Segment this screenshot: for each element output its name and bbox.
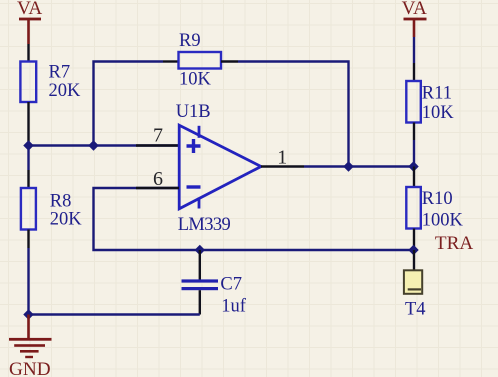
R9 left pin stub	[163, 60, 179, 62]
svg-text:C7: C7	[220, 274, 242, 294]
svg-text:20K: 20K	[49, 81, 82, 101]
op-amp U1B triangle	[179, 125, 261, 209]
svg-text:T4: T4	[405, 299, 426, 319]
wire T4 pin	[413, 250, 415, 270]
junction TRA node	[408, 245, 418, 255]
wire VA-right to R11	[413, 37, 415, 63]
power symbol VA (left)	[19, 18, 41, 44]
svg-text:TRA: TRA	[435, 233, 474, 254]
svg-text:U1B: U1B	[176, 102, 211, 122]
svg-text:100K: 100K	[422, 210, 464, 230]
op-amp plus input mark	[187, 139, 201, 153]
wire C7 pin2 down	[199, 290, 201, 314]
op-amp minus input mark	[187, 185, 201, 188]
wire R10 pin2 to TRA node	[413, 229, 415, 251]
wire C7 pin1	[199, 250, 201, 280]
junction output/feedback	[343, 161, 353, 171]
junction at R7/R8	[23, 140, 33, 150]
pin 6 stub (op-amp)	[136, 187, 179, 189]
svg-text:R10: R10	[422, 189, 453, 209]
wire pin7 net horizontal	[29, 144, 180, 146]
svg-text:GND: GND	[9, 359, 51, 377]
wire R11 pin2 to junction	[413, 123, 415, 141]
wire R7 pin2 to junction	[27, 102, 29, 144]
resistor R11	[406, 81, 421, 123]
svg-text:LM339: LM339	[178, 215, 231, 235]
junction mid column	[88, 140, 98, 150]
wire output to right column	[304, 165, 414, 167]
wire feedback up-left: junction to R9 left	[94, 62, 164, 146]
ground symbol	[9, 338, 52, 358]
resistor R9	[179, 52, 222, 69]
svg-text:R7: R7	[49, 62, 71, 82]
junction ground node	[23, 309, 33, 319]
capacitor C7	[182, 279, 219, 290]
svg-text:20K: 20K	[50, 210, 83, 230]
svg-text:10K: 10K	[179, 70, 212, 90]
resistor R8	[21, 188, 36, 230]
op-amp power stub top	[198, 126, 201, 138]
junction output/R11	[408, 161, 418, 171]
svg-text:VA: VA	[402, 0, 427, 19]
resistor R10	[406, 187, 421, 229]
svg-text:10K: 10K	[422, 103, 455, 123]
resistor R7	[20, 62, 36, 103]
R9 right pin stub	[221, 60, 238, 62]
wire R8 junction to R8 pin1	[27, 146, 29, 171]
pin 7 stub (op-amp)	[136, 144, 179, 146]
svg-text:R11: R11	[422, 83, 452, 103]
power symbol VA (right)	[404, 18, 427, 37]
svg-text:1uf: 1uf	[221, 297, 247, 317]
testpoint T4	[404, 270, 422, 294]
wire R8 pin2 to ground junction	[27, 230, 29, 249]
svg-text:1: 1	[277, 147, 287, 169]
wire VA-left stub to R7 pin1	[27, 44, 29, 62]
svg-text:7: 7	[153, 125, 163, 147]
wire junction to R10 pin1	[413, 167, 415, 188]
pin 1 stub (op-amp output)	[261, 165, 304, 167]
junction C7 top	[195, 245, 205, 255]
wire pin6 net: op-amp to feedback bottom	[94, 188, 414, 250]
wire bottom-left ground net	[29, 313, 200, 315]
ground stub	[27, 315, 30, 339]
op-amp power stub bottom	[198, 198, 201, 209]
wire R9 right to output node	[238, 62, 349, 167]
svg-text:6: 6	[153, 168, 163, 190]
svg-text:R9: R9	[179, 31, 201, 51]
svg-text:VA: VA	[17, 0, 42, 19]
